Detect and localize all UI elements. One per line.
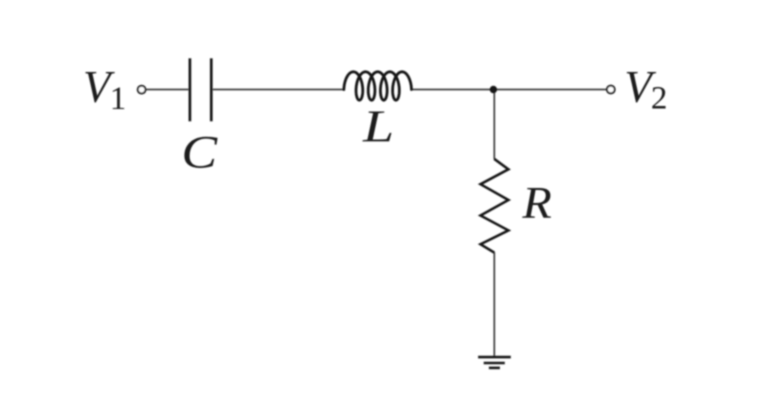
svg-text:R: R — [521, 178, 551, 229]
svg-text:C: C — [181, 125, 218, 177]
svg-text:L: L — [362, 101, 394, 152]
svg-text:1: 1 — [110, 81, 127, 117]
svg-text:2: 2 — [651, 81, 668, 117]
